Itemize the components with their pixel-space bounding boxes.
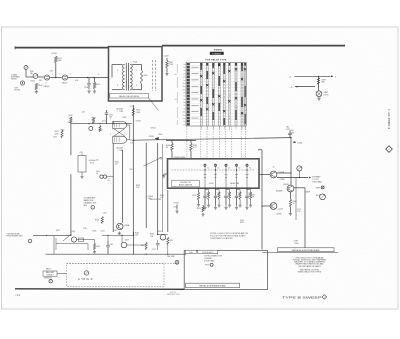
svg-text:C239: C239 (83, 228, 87, 230)
svg-text:R247: R247 (141, 245, 145, 247)
svg-text:C251: C251 (174, 207, 178, 209)
leader line (148, 98, 158, 111)
wire (102, 234, 134, 236)
delay line tap ticks (204, 175, 249, 178)
output arrow B SWEEP (277, 177, 308, 179)
ground (214, 206, 217, 210)
svg-text:VOLTAGE AND: VOLTAGE AND (84, 196, 96, 199)
switch label B TIME/DIV (210, 52, 224, 55)
svg-text:R518: R518 (123, 117, 127, 119)
ground (317, 97, 320, 101)
svg-text:uS: uS (175, 99, 177, 101)
wire (132, 105, 134, 235)
shield dashes (152, 60, 154, 91)
tube CE516 (62, 75, 67, 80)
ref circle (49, 280, 52, 283)
svg-text:TYPE: TYPE (15, 295, 21, 297)
svg-text:R509: R509 (61, 130, 65, 132)
svg-text:Q245: Q245 (113, 230, 117, 232)
ground (93, 250, 96, 254)
svg-text:2: 2 (110, 134, 111, 136)
wire (295, 75, 331, 77)
ground shield (164, 173, 168, 175)
svg-text:.01: .01 (96, 173, 98, 175)
junction (133, 235, 134, 236)
svg-text:+12: +12 (107, 180, 110, 182)
wire (53, 236, 55, 254)
label box SWEEP MAG (43, 271, 57, 276)
wire (167, 190, 169, 232)
resistor R499 (317, 78, 319, 85)
svg-text:+B: +B (273, 167, 275, 169)
svg-text:1: 1 (30, 241, 31, 243)
svg-text:3: 3 (46, 82, 47, 84)
svg-text:1: 1 (136, 70, 137, 72)
svg-text:REGIS: REGIS (11, 79, 17, 81)
resistor beside C255 (216, 189, 220, 191)
svg-text:2: 2 (389, 149, 390, 151)
capacitor C512 (106, 110, 108, 113)
svg-text:WAVEFORM: WAVEFORM (84, 199, 94, 202)
svg-text:B SWEEP SHT 2: B SWEEP SHT 2 (389, 108, 391, 129)
label box PARTIAL A5 HORIZONTAL BOARD (277, 248, 334, 252)
wire dashed drops (187, 126, 246, 159)
resistor R253 (167, 237, 169, 245)
svg-text:C245: C245 (110, 244, 114, 246)
wire (55, 63, 57, 77)
resistor beside C259 (237, 189, 241, 191)
svg-text:C514: C514 (102, 121, 106, 123)
svg-text:A TRIG R: A TRIG R (78, 277, 93, 281)
wire (295, 86, 297, 88)
svg-text:TP16: TP16 (205, 265, 209, 267)
resistor R247 (145, 242, 147, 250)
svg-text:Q254A: Q254A (124, 224, 130, 227)
svg-text:TD 50: TD 50 (90, 163, 95, 165)
svg-text:R502: R502 (31, 81, 35, 83)
svg-text:R256: R256 (160, 195, 164, 197)
svg-text:Q264B: Q264B (283, 184, 289, 186)
transistor Q241 (71, 237, 76, 242)
svg-text:R528: R528 (136, 185, 140, 187)
svg-text:6: 6 (117, 85, 118, 87)
resistor R268 (290, 196, 292, 199)
svg-text:C520: C520 (129, 169, 133, 171)
wire (166, 140, 196, 142)
svg-text:3: 3 (50, 281, 51, 283)
resistor R503 (35, 83, 38, 90)
wire diagonal (63, 234, 72, 241)
svg-text:R241: R241 (92, 231, 96, 233)
delay line DL250 shield box (168, 159, 260, 188)
ground (245, 206, 248, 210)
svg-text:DL250: DL250 (209, 183, 214, 185)
diamond marker large (386, 146, 393, 153)
wire (290, 170, 292, 185)
transformer T501 (126, 63, 128, 91)
connector J11 (198, 250, 218, 253)
wire main shield bus right (162, 45, 345, 47)
svg-text:OBTAINED THIS: OBTAINED THIS (84, 202, 98, 205)
svg-text:L MODE 2: L MODE 2 (46, 275, 53, 277)
svg-text:4: 4 (98, 74, 99, 76)
svg-text:1: 1 (52, 74, 53, 76)
connector EXT HORIZ (20, 81, 24, 85)
svg-text:PARTIAL A5 HORIZONTAL BOARD: PARTIAL A5 HORIZONTAL BOARD (292, 249, 321, 252)
svg-text:TP250: TP250 (174, 203, 179, 205)
resistor R530 (171, 141, 173, 144)
transistor Q264A (270, 171, 277, 178)
svg-text:T501: T501 (133, 62, 137, 64)
switch wafer headers (200, 63, 202, 66)
svg-text:50: 50 (239, 168, 241, 170)
wire (158, 234, 168, 236)
ref circle (28, 239, 32, 243)
svg-text:CR524: CR524 (151, 128, 156, 130)
svg-text:SEMICONDUCTOR TYPES: SEMICONDUCTOR TYPES (298, 272, 322, 274)
transistor Q247 (160, 235, 166, 241)
svg-text:+100: +100 (103, 213, 107, 215)
svg-text:50: 50 (249, 168, 251, 170)
svg-text:1000: 1000 (295, 243, 299, 245)
svg-text:mS: mS (174, 74, 176, 76)
ground bus (46, 253, 186, 255)
capacitor C504 (88, 78, 90, 84)
bottom rule (15, 288, 184, 291)
svg-text:R253: R253 (170, 240, 174, 242)
wire loop (56, 243, 88, 245)
wire B+ feed (133, 138, 291, 141)
wire (77, 239, 95, 241)
wire (112, 121, 114, 123)
svg-text:Q274B: Q274B (276, 214, 281, 216)
svg-text:THRU MAG: THRU MAG (312, 181, 322, 184)
svg-text:R252: R252 (193, 195, 197, 197)
svg-text:+B1: +B1 (82, 111, 85, 113)
wire (127, 244, 146, 246)
resistor R501 (55, 56, 58, 63)
switch contact bars (201, 64, 203, 70)
switch rotor band (187, 63, 190, 126)
svg-text:C509: C509 (53, 137, 57, 139)
transformer shield enclosure (109, 47, 163, 101)
node +150 (293, 141, 295, 143)
transistor Q274 (270, 203, 277, 210)
svg-text:C501: C501 (50, 71, 54, 73)
svg-text:+225: +225 (130, 106, 134, 108)
wire (50, 77, 62, 79)
svg-text:Q241: Q241 (71, 231, 75, 233)
ground (203, 206, 206, 210)
svg-text:DIGITAL S.N.: DIGITAL S.N. (180, 181, 191, 184)
svg-text:FROM SWEEP GEN: FROM SWEEP GEN (6, 236, 23, 238)
wire (70, 174, 72, 235)
switch contact dashes (191, 67, 198, 118)
resistor beside C257 (226, 189, 230, 191)
resistor beside C253 (205, 189, 209, 191)
svg-text:Q274: Q274 (279, 209, 283, 211)
svg-text:SWP: SWP (30, 71, 34, 73)
switch table crosses (200, 75, 202, 77)
ground (224, 206, 227, 210)
socket pin (89, 127, 93, 131)
svg-text:2: 2 (92, 207, 93, 209)
capacitor C255 (215, 188, 217, 195)
svg-text:DELAY LINE HOUSING: DELAY LINE HOUSING (119, 95, 140, 98)
svg-text:TIME/CM IF TIME: TIME/CM IF TIME (149, 199, 161, 201)
svg-text:DEL SWP: DEL SWP (167, 256, 175, 258)
svg-text:B4500 & ABOVE: B4500 & ABOVE (179, 184, 193, 187)
svg-text:(+150): (+150) (297, 142, 303, 144)
wire (71, 123, 132, 125)
switch table bottom ticks (201, 126, 245, 128)
wire (38, 76, 44, 78)
svg-text:4: 4 (136, 85, 137, 87)
svg-text:C518: C518 (96, 171, 100, 173)
connector J501 (24, 66, 28, 70)
junction (157, 234, 158, 235)
wire (121, 235, 123, 242)
resistor beside C261 (247, 189, 251, 191)
svg-text:C262: C262 (240, 220, 244, 222)
wire main shield bus left (15, 47, 109, 49)
svg-text:R524: R524 (159, 134, 163, 136)
transistor Q264B (287, 185, 294, 192)
delay line taps (205, 164, 247, 189)
svg-text:Q249: Q249 (125, 240, 129, 242)
svg-text:COMPONENT LOCATIONS.: COMPONENT LOCATIONS. (210, 237, 233, 240)
potentiometer R278 (320, 194, 326, 200)
svg-text:.001: .001 (109, 117, 112, 119)
wire (262, 251, 338, 253)
wire cross-couple (114, 129, 125, 136)
svg-text:R251: R251 (158, 231, 162, 233)
transistor Q254 (117, 223, 123, 229)
wire (33, 234, 71, 236)
svg-text:50: 50 (218, 168, 220, 170)
svg-text:JULY 13: JULY 13 (170, 292, 176, 294)
svg-text:+100V: +100V (51, 53, 58, 55)
wire (112, 64, 123, 66)
svg-text:LIGHT: LIGHT (324, 94, 329, 96)
potentiometer R262 (297, 166, 302, 171)
svg-text:+12: +12 (118, 233, 121, 235)
interface board outline (184, 251, 267, 290)
resistor R243 (94, 243, 96, 250)
capacitor C245 (107, 241, 109, 245)
tube CE514 (44, 75, 49, 80)
wire pair C250 (145, 143, 147, 228)
resistor R252 (198, 188, 200, 192)
dashed front panel box (67, 263, 165, 286)
svg-text:R250: R250 (197, 208, 201, 210)
capacitor C249 (157, 240, 159, 243)
svg-text:FOR RELAY TYPE: FOR RELAY TYPE (205, 59, 227, 62)
resistor R504 (94, 78, 96, 83)
lamp B501 (316, 91, 322, 97)
svg-text:2: 2 (70, 74, 71, 76)
svg-text:R260: R260 (251, 194, 255, 196)
svg-text:HORIZ: HORIZ (15, 90, 21, 92)
svg-text:7: 7 (110, 119, 111, 121)
ground (87, 90, 90, 94)
wire (57, 273, 67, 275)
resistor R532 (190, 141, 192, 144)
label box DIGITAL SN (172, 180, 200, 187)
resistor R250 (202, 205, 204, 206)
socket pins (100, 175, 103, 178)
capacitor C259 (236, 188, 238, 195)
svg-text:680: 680 (322, 82, 325, 84)
transistor Q245 (121, 242, 127, 248)
wire (161, 144, 163, 232)
svg-text:C272: C272 (297, 209, 301, 211)
ref circle (91, 205, 95, 209)
wire (107, 235, 109, 241)
resistor R506 (140, 70, 142, 84)
svg-text:5: 5 (335, 77, 336, 79)
resistor network (79, 238, 84, 242)
svg-text:CR520: CR520 (149, 136, 154, 138)
svg-text:& FLAT LEAD: & FLAT LEAD (204, 259, 215, 262)
svg-text:50: 50 (207, 168, 209, 170)
svg-text:CR522: CR522 (136, 120, 141, 122)
wire (67, 262, 179, 264)
capacitor C253 (204, 188, 206, 195)
wire (259, 174, 262, 176)
svg-text:TYPE B SWEEP: TYPE B SWEEP (282, 296, 322, 300)
svg-text:R262: R262 (240, 222, 244, 224)
svg-text:R522: R522 (115, 162, 119, 164)
svg-text:Q235: Q235 (56, 230, 60, 232)
wire (68, 77, 108, 79)
svg-text:SW505: SW505 (214, 49, 223, 51)
svg-text:R243: R243 (96, 246, 100, 248)
svg-text:5: 5 (117, 70, 118, 72)
wire (290, 138, 292, 170)
svg-text:PARTIAL A1 INTERFACE BOARD: PARTIAL A1 INTERFACE BOARD (199, 285, 226, 288)
svg-text:R254: R254 (95, 219, 99, 221)
switch wafer ladders (200, 62, 246, 126)
svg-text:CE514: CE514 (44, 86, 50, 88)
wire (295, 178, 297, 221)
svg-text:+100V: +100V (164, 56, 170, 58)
svg-text:B TIME/DIV: B TIME/DIV (212, 53, 222, 55)
svg-text:R504: R504 (96, 84, 100, 86)
svg-text:CE516: CE516 (62, 82, 68, 84)
capacitor C261 (246, 188, 248, 195)
svg-text:JUMPER WIRE: JUMPER WIRE (174, 157, 187, 159)
wire (261, 150, 263, 250)
switch table rows (186, 66, 246, 123)
svg-text:R278: R278 (316, 195, 320, 197)
diamond marker small (322, 295, 327, 300)
label box PARTIAL INTERFACE (186, 283, 240, 287)
ground (235, 206, 238, 210)
ground (35, 90, 38, 94)
connector P11 (185, 250, 196, 253)
tube CE524B (113, 136, 127, 143)
test point (210, 263, 213, 266)
svg-text:C510: C510 (67, 122, 71, 124)
capacitor C521 (289, 131, 291, 134)
trimmer C250 (144, 157, 162, 166)
wire (25, 70, 27, 78)
svg-text:+225: +225 (95, 160, 99, 162)
potentiometer R502 (33, 74, 38, 79)
svg-text:C247: C247 (152, 249, 156, 251)
svg-text:50: 50 (228, 168, 230, 170)
capacitor C257 (225, 188, 227, 195)
potentiometer A TRIG R (84, 271, 88, 275)
svg-text:0.46: 0.46 (75, 80, 78, 82)
label box DELAY LINE HOUSING (110, 93, 149, 98)
wire (262, 174, 270, 176)
svg-text:ON DISPLAYED IN SHEET: ON DISPLAYED IN SHEET (298, 265, 321, 268)
svg-text:R503: R503 (38, 85, 42, 87)
svg-text:R506: R506 (144, 75, 148, 77)
svg-text:C241: C241 (101, 231, 105, 233)
wire (304, 188, 306, 230)
ground (80, 175, 83, 179)
switch table frame (186, 62, 246, 126)
svg-text:C504: C504 (84, 87, 88, 89)
ground (118, 232, 121, 236)
wire (133, 232, 135, 254)
svg-text:Q264A: Q264A (279, 171, 285, 174)
svg-text:2: 2 (324, 297, 325, 299)
delay line dashed core (172, 169, 256, 171)
